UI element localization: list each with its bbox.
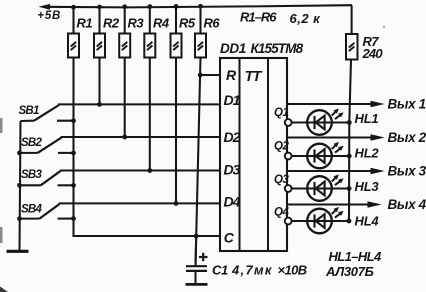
- svg-text:Q2: Q2: [274, 140, 289, 152]
- svg-text:К155ТМ8: К155ТМ8: [251, 41, 304, 56]
- svg-text:Q4: Q4: [274, 206, 289, 218]
- svg-text:SB1: SB1: [19, 105, 39, 117]
- svg-text:D2: D2: [224, 129, 241, 145]
- svg-text:D3: D3: [224, 162, 241, 178]
- svg-text:D4: D4: [224, 194, 241, 210]
- svg-text:Q3: Q3: [274, 174, 289, 186]
- svg-text:R: R: [226, 67, 237, 83]
- svg-text:240: 240: [362, 46, 384, 61]
- svg-text:АЛ307Б: АЛ307Б: [325, 264, 374, 279]
- svg-text:C: C: [224, 229, 235, 245]
- svg-text:HL1–HL4: HL1–HL4: [329, 249, 383, 264]
- svg-text:R2: R2: [103, 16, 120, 31]
- svg-text:HL3: HL3: [355, 179, 380, 194]
- svg-text:С1: С1: [212, 263, 228, 278]
- svg-text:SB4: SB4: [21, 204, 42, 216]
- svg-text:D1: D1: [224, 92, 241, 108]
- svg-text:SB3: SB3: [21, 169, 42, 181]
- svg-text:Вых 3: Вых 3: [388, 164, 426, 179]
- svg-text:Вых 4: Вых 4: [388, 197, 426, 212]
- svg-text:DD1: DD1: [220, 41, 246, 56]
- svg-text:Вых 1: Вых 1: [388, 97, 426, 112]
- svg-text:HL1: HL1: [355, 111, 379, 126]
- svg-text:Q1: Q1: [274, 107, 288, 119]
- svg-text:R6: R6: [204, 16, 221, 31]
- svg-text:HL4: HL4: [355, 214, 380, 229]
- svg-text:R4: R4: [153, 16, 170, 31]
- svg-text:+5В: +5В: [37, 10, 61, 22]
- svg-text:HL2: HL2: [355, 146, 380, 161]
- svg-text:R5: R5: [179, 16, 196, 31]
- svg-text:R1–R6: R1–R6: [240, 10, 277, 25]
- svg-text:6,2 к: 6,2 к: [290, 11, 322, 26]
- svg-text:SB2: SB2: [21, 137, 42, 149]
- svg-text:×10В: ×10В: [278, 263, 307, 278]
- svg-text:Вых 2: Вых 2: [388, 130, 426, 145]
- svg-text:4,7мк: 4,7мк: [231, 263, 273, 278]
- svg-text:R1: R1: [77, 16, 93, 31]
- svg-text:R3: R3: [128, 16, 145, 31]
